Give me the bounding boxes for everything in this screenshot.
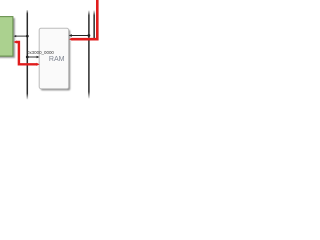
bus wire: left vertical bus (27, 10, 29, 99)
CPU core block (green, cropped at left edge) (0, 17, 13, 57)
wire: left bus to RAM, arrowhead into RAM, junction dot on bus (26, 56, 40, 59)
svg-text:RAM: RAM (49, 56, 65, 63)
CPU core block drop shadow (0, 18, 15, 58)
RAM block drop shadow (41, 30, 70, 91)
RAM block U-RAM (39, 28, 68, 88)
wire: left bus to CPU core, arrowhead into CPU, junction dot on bus (14, 35, 29, 38)
bus wire: right vertical bus (88, 10, 90, 98)
red wire: CPU core to RAM (elbow), arrowheads both ends (14, 40, 40, 65)
wire: right bus to RAM, arrowhead into RAM, junction dot on bus (69, 34, 91, 37)
bus wire: mid-right vertical bus stub (93, 10, 95, 40)
svg-text:0x3000_0000: 0x3000_0000 (27, 50, 54, 55)
red wire: top edge down to RAM right side, arrowhead into RAM (69, 0, 97, 41)
